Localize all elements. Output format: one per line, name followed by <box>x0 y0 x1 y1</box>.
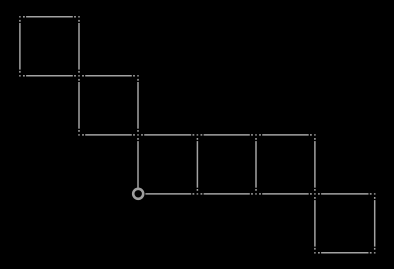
edge: horizontal bottom of square E <box>259 193 312 195</box>
edge: vertical right of square A <box>78 20 80 73</box>
edge: vertical left of square B <box>78 79 80 132</box>
edge: horizontal bottom of square C <box>145 193 194 195</box>
edge: horizontal top of square A <box>23 16 76 18</box>
edge: vertical left of square A <box>19 20 21 73</box>
edge: vertical shared C-D <box>196 138 198 191</box>
edge: vertical right of square E <box>314 138 316 191</box>
edge: horizontal top of square C <box>141 134 194 136</box>
edge: horizontal top of square E <box>259 134 312 136</box>
edge: horizontal top of square F <box>318 193 372 195</box>
edge: horizontal bottom of square B <box>82 134 135 136</box>
edge: vertical left of square F <box>314 197 316 250</box>
edge: vertical right of square F <box>374 197 376 250</box>
edge: horizontal top of square D <box>201 134 253 136</box>
edge: horizontal bottom of square A <box>23 75 76 77</box>
edge: horizontal top of square B <box>82 75 135 77</box>
edge: vertical left of square C <box>137 138 139 188</box>
corner junction dots <box>19 16 375 254</box>
edge: vertical shared D-E <box>255 138 257 191</box>
edge: vertical right of square B <box>137 79 139 132</box>
edge: horizontal bottom of square F <box>318 252 372 254</box>
edge: horizontal bottom of square D <box>201 193 253 195</box>
node: open circle vertex marker at bottom-left corner of square C <box>133 189 143 199</box>
